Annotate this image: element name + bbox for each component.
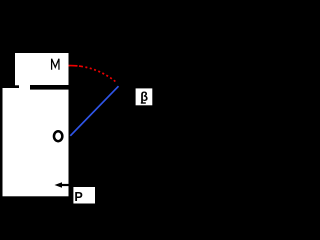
bracket / wall block (large white rectangle)	[3, 88, 69, 196]
gap shading between block M and wall (black band right part)	[30, 85, 69, 90]
arrowhead of P	[55, 182, 63, 187]
beta foot serif	[141, 102, 146, 103]
node O label	[54, 131, 62, 141]
label M	[52, 59, 59, 70]
svg-text:P: P	[74, 190, 82, 204]
angle arc (red dashed arc from vertical edge to rod)	[69, 66, 117, 83]
force arrow P (pointing left at bottom)	[59, 184, 75, 186]
block M (small white rectangle on top)	[15, 53, 69, 85]
svg-text:β: β	[140, 89, 148, 104]
rod (blue line from O to upper right)	[70, 86, 118, 136]
label box for P	[73, 187, 95, 204]
label box for beta	[136, 88, 153, 105]
connector notch (white bridge between block M and wall)	[19, 84, 30, 90]
